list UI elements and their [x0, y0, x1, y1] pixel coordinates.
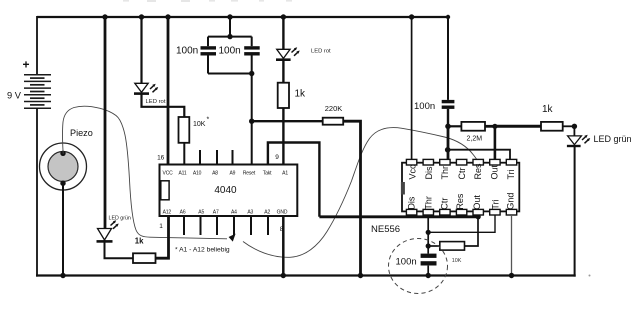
svg-text:A6: A6 [180, 210, 186, 216]
wire lower Thr to lower Tri [428, 215, 495, 232]
resistor 2,2M [448, 122, 498, 131]
svg-text:A11: A11 [178, 170, 186, 176]
svg-text:Thr: Thr [424, 196, 434, 210]
svg-text:9 V: 9 V [7, 91, 22, 101]
wire supply drop to green LED (left) [102, 14, 107, 229]
wire 1k to pin A1 [282, 108, 284, 165]
svg-text:9: 9 [275, 154, 279, 161]
wire rail drop to red LED 1 [139, 14, 144, 83]
svg-text:100n: 100n [219, 46, 241, 57]
wire 10K to pin A11 [183, 143, 185, 165]
svg-text:Reset: Reset [243, 170, 256, 176]
wire battery to bottom rail [36, 108, 38, 276]
wire rail corner to capacitor C3 [447, 16, 449, 100]
svg-text:100n: 100n [396, 257, 417, 268]
LED green right [567, 126, 590, 146]
wire Out junction to 1k right [495, 125, 541, 128]
svg-text:A4: A4 [231, 210, 237, 216]
svg-text:100n: 100n [176, 46, 198, 57]
svg-text:Gnd: Gnd [506, 193, 516, 210]
wire bottom ground rail [36, 274, 576, 276]
resistor 10K bottom [428, 217, 478, 250]
resistor 1k top right [541, 122, 577, 131]
svg-text:4040: 4040 [214, 185, 237, 196]
LED red 1 [134, 83, 158, 93]
wire 1k to pin A12 [156, 216, 169, 258]
wire green LED to 1k resistor [105, 240, 134, 258]
svg-text:A2: A2 [264, 210, 270, 216]
svg-text:+: + [22, 58, 29, 72]
LED red 2 [276, 47, 300, 60]
U1 top pin labels [163, 170, 289, 176]
IC U1 4040 body [160, 165, 298, 217]
wire left edge from rail to battery [36, 16, 38, 75]
wire NE556 lower Thr drop [426, 215, 431, 254]
svg-text:LED grün: LED grün [109, 216, 131, 222]
resistor 1k below LED 2 [278, 83, 289, 108]
svg-text:10K: 10K [193, 121, 206, 128]
svg-text:Out: Out [489, 164, 499, 179]
wire 220K to bottom rail [343, 121, 363, 278]
freehand wire from piezo top electrode to pin A4 [63, 106, 236, 241]
svg-text:220K: 220K [325, 104, 343, 113]
svg-text:LED rot: LED rot [146, 99, 166, 105]
wire green LED right to bottom rail [574, 146, 576, 277]
freehand annotation line toward NE556 [243, 128, 480, 258]
svg-text:A9: A9 [229, 170, 235, 176]
svg-text:Piezo: Piezo [70, 128, 93, 138]
wire rail drop to decoupling caps [208, 14, 252, 39]
U2 top pin pads [406, 159, 516, 165]
svg-text:Ctr: Ctr [440, 198, 450, 210]
wire rail drop to NE556 Vcc [409, 14, 414, 159]
wire red LED 1 to 10K resistor [142, 94, 185, 117]
svg-text:2,2M: 2,2M [467, 136, 483, 143]
U1 top pin stubs [200, 150, 233, 165]
LED green left [97, 220, 119, 241]
svg-text:1: 1 [159, 223, 163, 230]
capacitor C1 100n [201, 37, 217, 74]
wire rail drop to 4040 VCC [165, 14, 170, 164]
dashed annotation circle [389, 239, 448, 294]
svg-text:A5: A5 [198, 210, 204, 216]
capacitor C4 100n bottom [421, 254, 437, 279]
wire Out junction to Out pin [494, 126, 497, 159]
IC U2 NE556 body [401, 163, 519, 212]
resistor 1k bottom left [133, 253, 156, 263]
svg-text:A12: A12 [163, 210, 172, 216]
svg-text:A10: A10 [193, 170, 202, 176]
U1 bottom pin stubs [184, 216, 268, 235]
U1 bottom pin labels [163, 210, 288, 216]
wire C3 to Thr with junctions [445, 124, 451, 160]
svg-text:Ctr: Ctr [457, 168, 467, 180]
wire thick to NE556 lower Out [319, 214, 480, 219]
svg-text:*: * [207, 117, 210, 124]
wire piezo to bottom rail [60, 183, 65, 278]
svg-text:Out: Out [472, 195, 482, 210]
svg-text:100n: 100n [414, 101, 435, 112]
svg-text:Vcc: Vcc [408, 164, 418, 180]
svg-text:1k: 1k [542, 104, 554, 115]
wire LED 2 to 1k [282, 60, 284, 83]
svg-text:1k: 1k [295, 89, 307, 100]
svg-text:Thr: Thr [440, 166, 450, 180]
svg-text:Tri: Tri [506, 169, 516, 179]
svg-text:Res: Res [473, 163, 483, 180]
battery 9V [24, 75, 51, 109]
wire rail drop to red LED 2 [281, 14, 286, 49]
svg-text:NE556: NE556 [371, 224, 400, 235]
resistor 10K vertical [179, 117, 190, 143]
svg-text:A8: A8 [212, 170, 218, 176]
wire NE556 Gnd to bottom rail [509, 215, 514, 278]
svg-text:A7: A7 [213, 210, 219, 216]
svg-text:Tri: Tri [491, 199, 501, 209]
wire Thr to Tri top [448, 150, 510, 160]
wire 4040 GND to bottom rail [281, 216, 286, 278]
svg-text:A1: A1 [282, 170, 288, 176]
svg-text:16: 16 [157, 155, 165, 162]
svg-text:LED grün: LED grün [594, 134, 632, 144]
wire Reset node to 220K [252, 120, 323, 122]
svg-text:VCC: VCC [163, 170, 174, 176]
piezo disc [40, 143, 87, 190]
svg-text:A3: A3 [247, 210, 253, 216]
capacitor C3 100n [442, 100, 455, 126]
svg-text:GND: GND [277, 210, 288, 216]
svg-text:Takt: Takt [263, 170, 272, 176]
wire caps bottom junction to Reset [208, 71, 254, 165]
U2 top pin labels [408, 163, 516, 180]
svg-text:LED rot: LED rot [311, 49, 331, 55]
svg-text:Dis: Dis [424, 166, 434, 179]
svg-text:Res: Res [455, 193, 465, 210]
svg-text:1k: 1k [135, 237, 144, 246]
resistor 220K [323, 118, 344, 125]
svg-text:* A1 - A12 beliebig: * A1 - A12 beliebig [175, 247, 230, 254]
wire top supply rail [37, 16, 448, 18]
U2 bottom pin pads [406, 209, 516, 215]
wire Takt to NE556 out [268, 143, 320, 217]
svg-text:Dis: Dis [407, 196, 417, 209]
capacitor C2 100n [244, 37, 260, 74]
svg-text:10K: 10K [452, 258, 462, 264]
U2 bottom pin labels [407, 193, 516, 210]
